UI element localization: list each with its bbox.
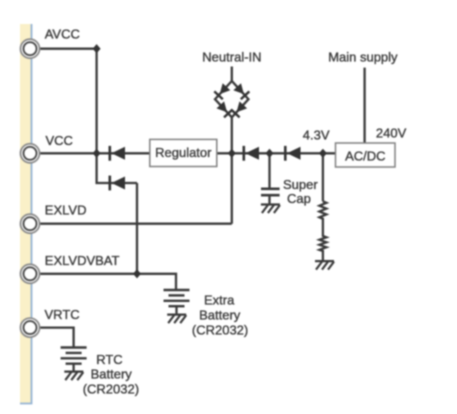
junction (VCC node) [93,149,101,158]
connector pin VRTC [21,318,40,337]
wire BT2 to ground [72,364,74,372]
ground (below BT2) [64,372,83,381]
capacitor C1 (Super Cap) [261,189,280,195]
svg-text:Regulator: Regulator [155,145,212,160]
connector pin EXLVD [21,214,40,233]
svg-text:Cap: Cap [287,191,311,206]
wire VCC to Regulator [38,152,150,154]
wire Regulator to AC/DC [217,152,336,154]
ground (below Super Cap) [261,205,280,214]
wire bridge-bottom to EXLVD vertical [231,116,233,224]
wire row2 corner down to EXLVDVBAT [136,183,138,274]
junction (resistor node, 4.3V) [319,149,327,158]
svg-text:Extra: Extra [204,292,235,307]
svg-text:Main supply: Main supply [328,49,398,64]
regulator U1 box [150,139,217,166]
wire super-cap to ground [268,195,270,205]
svg-text:VCC: VCC [46,133,73,148]
svg-text:(CR2032): (CR2032) [83,381,139,396]
junction (EXLVDVBAT node) [133,269,141,278]
connector pin VCC [21,144,40,163]
label Extra Battery (CR2032) [192,292,248,337]
svg-text:Battery: Battery [91,367,133,382]
svg-text:AVCC: AVCC [45,27,80,42]
bridge rectifier BR1 [214,81,249,117]
svg-text:EXLVD: EXLVD [45,203,87,218]
wire EXLVDVBAT horizontal and drop to extra battery [38,274,176,290]
diode D1 (VCC row) [110,146,125,161]
wire super-cap drop [268,153,270,188]
ground (below BT1) [167,315,186,324]
diode D3 (right of bridge junction) [244,146,259,161]
wire AVCC-to-VCC vertical down to row2 corner [97,49,137,183]
battery BT2 (RTC Battery) [61,348,87,364]
junction (super cap node) [266,149,274,158]
wire EXLVD horizontal [38,223,232,225]
connector strip (left terminal bar) [20,24,32,404]
wire resistor drop [322,153,324,201]
svg-text:VRTC: VRTC [45,307,80,322]
label Super Cap [283,177,318,206]
wire Neutral-IN drop to bridge [231,67,233,83]
resistor R1 [319,201,326,261]
svg-text:240V: 240V [376,125,407,140]
svg-text:EXLVDVBAT: EXLVDVBAT [45,253,120,268]
svg-text:RTC: RTC [96,352,122,367]
wire Main supply drop to AC/DC [363,68,365,143]
battery BT1 (Extra Battery) [164,290,190,306]
svg-text:Neutral-IN: Neutral-IN [202,49,261,64]
wire AVCC horizontal [38,48,97,50]
wire VRTC to RTC battery [38,328,74,348]
wire BT1 to ground [175,306,177,314]
svg-text:Battery: Battery [199,308,241,323]
label RTC Battery (CR2032) [83,352,139,396]
connector pin EXLVDVBAT [21,264,40,283]
diode D4 (left of AC/DC) [285,146,300,161]
svg-text:4.3V: 4.3V [303,127,330,142]
svg-text:Super: Super [283,177,318,192]
ground (below resistor R1) [315,261,334,270]
connector pin AVCC [21,39,40,58]
AC/DC converter PS1 box [336,143,396,167]
svg-text:(CR2032): (CR2032) [192,323,248,338]
svg-text:AC/DC: AC/DC [345,149,385,164]
diode D2 (EXLVDVBAT row) [110,176,125,191]
junction (AVCC corner) [93,44,101,53]
junction (bridge output node) [228,149,236,158]
